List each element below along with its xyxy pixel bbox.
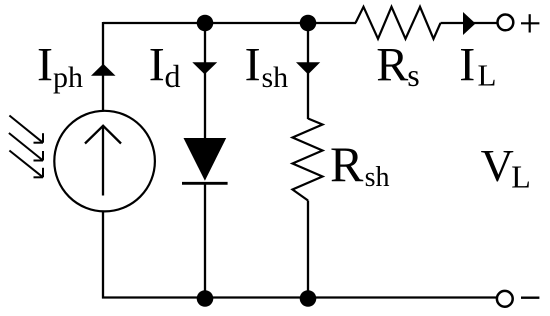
junction dot top-right (shunt top) (300, 15, 317, 32)
current arrow I_sh (down) (296, 62, 320, 74)
wire top horizontal left section (103, 22, 356, 24)
terminal circle top (+) (498, 15, 514, 31)
light arrow 2 (9, 133, 43, 161)
light arrow 3 (9, 151, 43, 178)
svg-text:L: L (478, 57, 497, 92)
svg-text:sh: sh (262, 61, 289, 94)
wire shunt branch lower (307, 201, 309, 298)
svg-text:I: I (245, 38, 261, 91)
diode D1 triangle (184, 138, 227, 181)
wire top horizontal right lead to terminal (441, 22, 498, 24)
svg-text:d: d (165, 58, 181, 94)
svg-text:V: V (481, 140, 514, 191)
svg-text:I: I (149, 38, 165, 91)
current arrow I_ph (up) (91, 64, 116, 76)
wire diode branch lower (204, 183, 206, 298)
svg-text:L: L (511, 158, 531, 194)
terminal circle bottom (-) (497, 291, 513, 307)
svg-text:I: I (459, 38, 475, 91)
current source arrow chevron (85, 126, 121, 144)
current arrow I_d (down) (192, 62, 217, 74)
svg-text:I: I (37, 38, 53, 91)
svg-text:s: s (407, 57, 419, 93)
svg-text:R: R (330, 136, 364, 192)
current arrow I_L (right) (463, 12, 476, 35)
junction dot bottom-left (diode bottom) (197, 290, 214, 307)
wire bottom horizontal (102, 296, 496, 298)
plus sign (521, 14, 539, 32)
svg-text:sh: sh (365, 162, 390, 193)
wire left vertical upper (102, 22, 104, 111)
resistor Rsh zigzag (293, 119, 323, 201)
wire left vertical lower (102, 212, 104, 299)
current source arrow shaft (102, 127, 104, 196)
wire diode branch upper (204, 23, 206, 139)
resistor Rs zigzag (356, 7, 441, 39)
wire shunt branch upper (307, 23, 309, 119)
junction dot bottom-right (shunt bottom) (300, 290, 317, 307)
minus sign (521, 297, 539, 299)
svg-text:R: R (376, 38, 408, 91)
diode D1 cathode bar (182, 182, 228, 185)
light arrow 1 (9, 116, 43, 143)
current source I_ph circle (54, 111, 155, 212)
junction dot top-left (diode top) (197, 15, 214, 32)
svg-text:ph: ph (53, 61, 83, 94)
